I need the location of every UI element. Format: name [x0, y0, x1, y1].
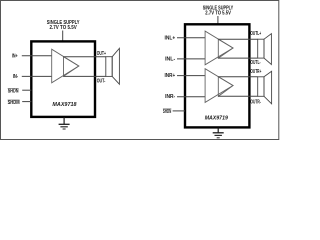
- svg-text:IN+: IN+: [12, 54, 18, 60]
- wire OUT+: [64, 56, 106, 58]
- wire OUT-: [64, 75, 106, 77]
- svg-text:OUTL+: OUTL+: [250, 31, 261, 37]
- svg-text:OUTR+: OUTR+: [250, 69, 261, 75]
- svg-text:INR+: INR+: [165, 73, 176, 79]
- pin SHDN: [8, 89, 32, 95]
- svg-text:2.7V TO 5.5V: 2.7V TO 5.5V: [50, 25, 78, 31]
- pin SHDM: [8, 100, 32, 106]
- IC block MAX9719: [185, 24, 249, 127]
- svg-text:OUT+: OUT+: [97, 51, 106, 57]
- svg-text:MAX9718: MAX9718: [52, 102, 77, 108]
- pin SHDN right: [163, 109, 185, 115]
- svg-text:INL-: INL-: [165, 57, 175, 63]
- ground right: [213, 128, 224, 138]
- IC block MAX9718: [31, 41, 95, 117]
- svg-text:OUT-: OUT-: [97, 79, 106, 85]
- pin INL-: [165, 57, 205, 63]
- op-amp U1 outer triangle: [52, 49, 79, 83]
- pin INR-: [165, 94, 205, 100]
- supply note right: SINGLE SUPPLY 2.7V TO 5.5V: [203, 6, 234, 17]
- wire OUTL+: [218, 38, 257, 40]
- svg-text:SHDN: SHDN: [163, 109, 172, 115]
- wire supply note to block: [62, 31, 64, 42]
- supply note left: SINGLE SUPPLY 2.7V TO 5.5V: [47, 20, 80, 31]
- op-amp U2B outer triangle: [205, 69, 233, 103]
- wire OUTR+: [218, 76, 257, 78]
- op-amp U2B inner triangle: [218, 77, 233, 97]
- pin INR+: [165, 73, 206, 79]
- ground left: [59, 117, 70, 129]
- svg-text:INL+: INL+: [165, 35, 176, 41]
- speaker LS1: [106, 48, 120, 84]
- svg-text:OUTL-: OUTL-: [250, 60, 260, 66]
- svg-text:IN-: IN-: [13, 74, 19, 80]
- pin IN-: [13, 74, 52, 80]
- pin INL+: [165, 35, 206, 41]
- op-amp U1 inner triangle: [64, 57, 79, 77]
- svg-text:SHDM: SHDM: [8, 100, 20, 106]
- wire OUTL-: [218, 57, 257, 59]
- svg-text:INR-: INR-: [165, 94, 175, 100]
- pin IN+: [12, 54, 52, 60]
- wire OUTR-: [218, 95, 257, 97]
- svg-text:2.7V TO 5.5V: 2.7V TO 5.5V: [205, 11, 231, 17]
- svg-text:OUTR-: OUTR-: [250, 100, 261, 106]
- speaker LS3: [258, 71, 272, 104]
- svg-text:SHDN: SHDN: [8, 89, 19, 95]
- wire supply note to block: [217, 16, 219, 24]
- speaker LS2: [258, 34, 272, 65]
- op-amp U2A outer triangle: [205, 31, 233, 65]
- svg-text:MAX9719: MAX9719: [205, 116, 229, 122]
- op-amp U2A inner triangle: [218, 39, 233, 58]
